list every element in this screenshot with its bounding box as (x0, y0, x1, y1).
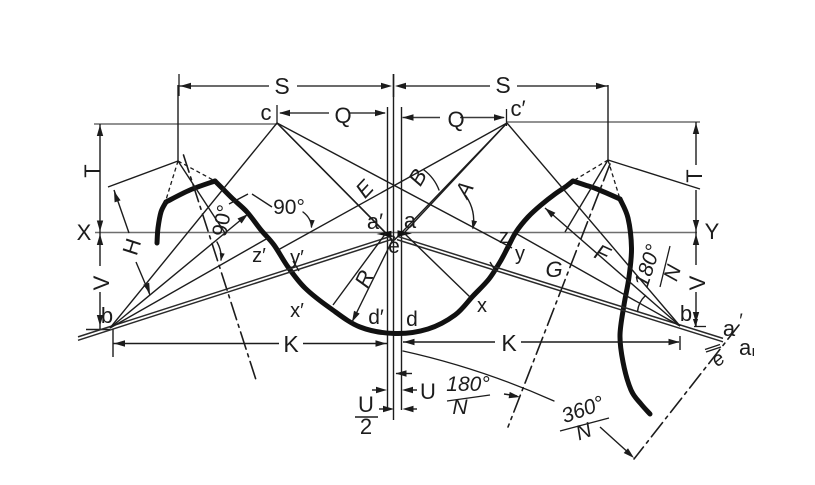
svg-text:c: c (261, 100, 272, 125)
arrow S left end (180, 83, 191, 89)
svg-text:K: K (283, 331, 299, 357)
offset line U right (401, 107, 403, 410)
extension line tip right (607, 85, 609, 160)
tooth profile centre gap (215, 181, 573, 334)
arrow T right top (693, 123, 699, 134)
tick K left (112, 329, 114, 357)
arrow F right (545, 208, 555, 218)
svg-text:z′: z′ (252, 245, 266, 267)
line aux right (517, 234, 680, 326)
svg-text:X: X (77, 220, 92, 245)
point e ring (390, 236, 395, 241)
svg-text:180°: 180° (446, 373, 489, 396)
dimension U arrows (372, 389, 383, 391)
arrow F left (238, 214, 249, 224)
line aux left (110, 238, 268, 328)
dashed tip left b (178, 161, 215, 181)
svg-text:Q: Q (447, 107, 464, 132)
arrow Q left centre (375, 110, 386, 116)
svg-text:K: K (501, 330, 517, 356)
line tip right outward (608, 160, 700, 189)
line R radius (352, 240, 393, 322)
top tooth line right (506, 121, 700, 123)
tick at b level left (86, 329, 110, 331)
svg-text:G: G (545, 257, 562, 282)
dimension line T-V left (99, 124, 101, 266)
angle arc A (466, 196, 474, 228)
dashed tip right b (608, 160, 620, 199)
line F radius right (545, 208, 680, 326)
line tip left outward (108, 161, 178, 187)
arrow V right top (693, 234, 699, 245)
svg-text:Y: Y (705, 219, 720, 244)
svg-text:b: b (101, 303, 113, 328)
dimension line S span (179, 85, 269, 87)
extension line tip left (177, 85, 179, 161)
svg-text:2: 2 (360, 414, 372, 439)
svg-text:S: S (495, 72, 510, 98)
top tooth line left (94, 123, 277, 125)
line radius x (404, 233, 470, 297)
svg-text:T: T (80, 164, 105, 177)
next chord stub (706, 347, 721, 352)
centre line left tooth (184, 155, 258, 383)
svg-text:V: V (685, 275, 710, 290)
svg-text:V: V (89, 275, 114, 290)
line F radius left (110, 214, 248, 328)
svg-text:y: y (515, 243, 525, 265)
leader 90 right (252, 194, 272, 207)
arc 180N (403, 351, 554, 401)
pitch line X-Y (95, 232, 697, 234)
arrow R (352, 311, 360, 322)
tick point c-prime (506, 109, 508, 126)
arrow H top (114, 191, 121, 202)
dashed tip right a (573, 160, 608, 181)
svg-text:a′: a′ (367, 209, 383, 234)
svg-text:′: ′ (739, 311, 743, 332)
tooth profile right flank (620, 199, 650, 414)
dimension line H (114, 190, 129, 233)
arrow V left bottom (97, 315, 103, 326)
dimension line Q left (280, 112, 329, 114)
arrow Q left at c (279, 110, 290, 116)
extension tick S left (178, 74, 180, 96)
dimension line K left (113, 343, 279, 345)
arrow T right bottom (693, 220, 699, 231)
line c-prime to e (395, 123, 508, 240)
arrow S left-centre (381, 83, 392, 89)
pitch chord right (397, 236, 723, 338)
line tip left inward (178, 161, 225, 233)
centre line next pitch (634, 325, 739, 459)
centre line right tooth (508, 164, 610, 427)
centre line (393, 74, 395, 420)
angle arc B (424, 170, 439, 190)
svg-text:d: d (406, 308, 418, 331)
dimension line Q right (403, 117, 441, 119)
arrow K left b (376, 340, 387, 346)
line c-prime to a (404, 123, 507, 233)
arrow K right b (669, 339, 680, 345)
arrow T left top (97, 125, 103, 136)
arrow S right-centre (395, 83, 406, 89)
svg-text:z: z (499, 226, 509, 248)
svg-text:S: S (274, 73, 289, 99)
tooth profile right top (573, 181, 620, 199)
svg-text:Q: Q (334, 103, 351, 128)
line b to c (110, 123, 277, 328)
arrow K right a (404, 339, 415, 345)
svg-text:a: a (404, 208, 417, 233)
svg-text:a: a (723, 316, 736, 341)
marker a (398, 230, 413, 236)
tick y-prime on chord (293, 261, 299, 271)
marker a-prime (377, 231, 392, 237)
angle arc at b-prime (638, 296, 646, 312)
arrow 360N (600, 427, 631, 455)
svg-text:U: U (420, 379, 436, 404)
arrow S right end (596, 83, 607, 89)
pitch chord left (78, 239, 392, 340)
arrow V right bottom (693, 312, 699, 323)
svg-text:90°: 90° (273, 196, 305, 219)
arrow Q right at c-prime (494, 114, 505, 120)
line c to e (277, 123, 393, 240)
arc 90 right (303, 212, 312, 227)
arrow at b-prime (693, 319, 698, 327)
line radius x-prime (333, 233, 386, 305)
arrow K left a (114, 340, 125, 346)
extension tick S centre (393, 74, 395, 97)
arrow 180N (504, 394, 517, 396)
line c-prime to y-prime (278, 123, 507, 250)
tooth profile left flank (157, 202, 166, 243)
svg-text:d′: d′ (368, 306, 384, 329)
arrow Q right centre (403, 114, 414, 120)
line c to y (277, 123, 512, 248)
tooth profile left top (166, 181, 215, 202)
arrow H bottom (143, 283, 150, 294)
dimension line K right (403, 341, 495, 343)
arc 90 left (217, 242, 221, 260)
tick y on chord (490, 262, 496, 272)
tick point c (276, 105, 278, 123)
svg-text:x: x (477, 295, 487, 317)
dimension line T-V right (695, 122, 697, 165)
dashed tip left a (165, 161, 178, 203)
arrow T left bottom (97, 221, 103, 232)
arrow at centre 180N (396, 373, 412, 375)
tick K right (679, 336, 681, 350)
line tip right inward (565, 160, 608, 232)
line c to a-prime (277, 123, 386, 233)
svg-text:x′: x′ (290, 300, 304, 322)
arrow V left top (97, 234, 103, 245)
leader 90 left (229, 194, 248, 204)
svg-text:N: N (452, 396, 468, 419)
dimension U2 arrows (379, 408, 390, 410)
svg-text:c′: c′ (510, 96, 525, 121)
offset line U left (387, 107, 389, 409)
svg-text:y′: y′ (290, 247, 304, 269)
svg-text:b: b (680, 301, 692, 326)
svg-text:T: T (682, 169, 707, 182)
line b-prime to c-prime (507, 123, 680, 326)
